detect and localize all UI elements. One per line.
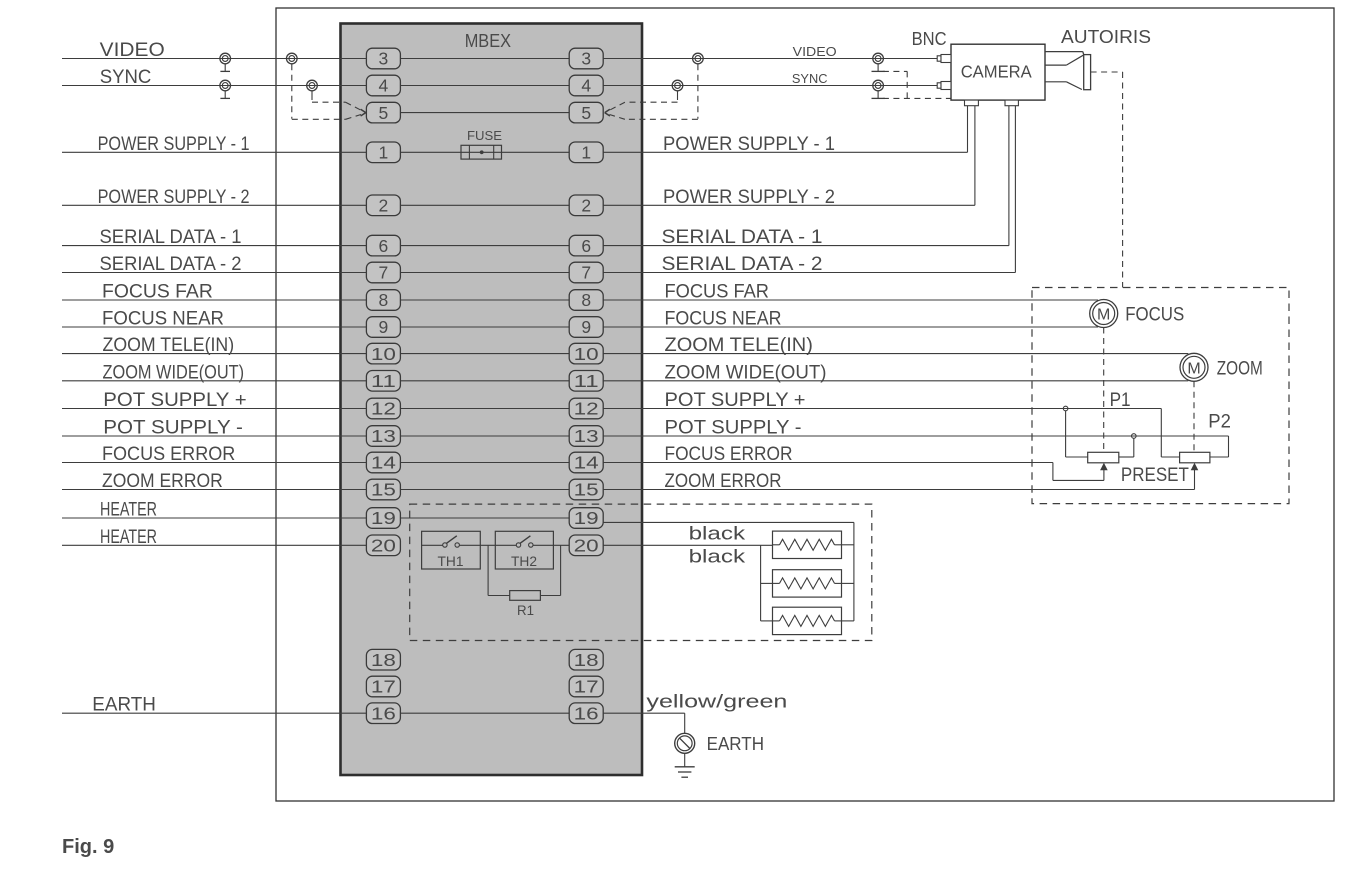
wire POWER SUPPLY -1 (right)	[603, 106, 967, 153]
pin 13 (right column)	[569, 426, 603, 447]
pin 15 (left column)	[366, 479, 400, 500]
wire HR1 to right bus	[842, 544, 854, 546]
wire pin 12 left-col to right-col	[400, 408, 569, 410]
svg-text:7: 7	[379, 263, 389, 283]
wire POT SUPPLY - (right)	[603, 436, 1228, 457]
svg-text:17: 17	[371, 677, 396, 697]
svg-text:HEATER: HEATER	[100, 527, 157, 548]
wire FOCUS FAR (left lead-in)	[62, 299, 366, 301]
lens assembly dashed boundary box	[1032, 288, 1289, 504]
svg-text:POWER SUPPLY - 2: POWER SUPPLY - 2	[663, 187, 835, 208]
wire POWER SUPPLY - 1 (left lead-in)	[62, 151, 366, 153]
shield connector on VIDEO line (left)	[287, 53, 298, 64]
svg-text:6: 6	[379, 236, 389, 256]
svg-text:14: 14	[371, 453, 396, 473]
svg-text:4: 4	[581, 76, 591, 96]
wire HR2 to right bus	[842, 582, 854, 584]
wire VIDEO (left lead-in)	[62, 58, 366, 60]
shield connector on SYNC line (left)	[307, 80, 318, 95]
dashed link focus motor to P1	[1103, 328, 1105, 451]
pin 5 (right column)	[569, 102, 603, 123]
svg-text:SERIAL DATA - 2: SERIAL DATA - 2	[662, 254, 823, 275]
wire ZOOM WIDE(OUT) (left lead-in)	[62, 380, 366, 382]
svg-text:MBEX: MBEX	[465, 31, 511, 51]
svg-text:19: 19	[371, 508, 396, 528]
wire pin 2 left-col to right-col	[400, 204, 569, 206]
svg-text:7: 7	[581, 263, 591, 283]
svg-text:18: 18	[371, 650, 396, 670]
svg-text:5: 5	[581, 103, 591, 123]
wire FOCUS NEAR (left lead-in)	[62, 326, 366, 328]
svg-text:8: 8	[379, 290, 389, 310]
svg-text:FOCUS ERROR: FOCUS ERROR	[665, 444, 793, 465]
svg-text:FUSE: FUSE	[467, 128, 502, 143]
wire pin 9 left-col to right-col	[400, 326, 569, 328]
pin 14 (left column)	[366, 452, 400, 473]
test point connector on VIDEO line (left)	[220, 53, 231, 71]
svg-text:12: 12	[574, 399, 599, 419]
wire HEATER pin 20 (right) to resistor bank	[603, 545, 772, 621]
svg-text:1: 1	[379, 143, 389, 163]
svg-text:HEATER: HEATER	[100, 500, 157, 521]
svg-text:14: 14	[574, 453, 599, 473]
svg-text:ZOOM WIDE(OUT): ZOOM WIDE(OUT)	[665, 362, 827, 383]
wire SYNC (left lead-in)	[62, 85, 366, 87]
shield connector on VIDEO line (right)	[693, 53, 704, 64]
autoiris lens assembly	[1045, 52, 1091, 90]
junction node on POT SUPPLY -	[1132, 434, 1137, 439]
wire FOCUS FAR (right)	[603, 299, 1098, 301]
wire pin 4 left-col to right-col	[400, 85, 569, 87]
camera bottom terminal stub 2	[1005, 100, 1018, 106]
wire ZOOM ERROR (right) to P2 wiper	[603, 469, 1194, 490]
potentiometer P1	[1088, 452, 1119, 463]
svg-text:POT SUPPLY +: POT SUPPLY +	[665, 390, 806, 411]
pin 6 (right column)	[569, 235, 603, 256]
svg-text:6: 6	[581, 236, 591, 256]
pin 17 (right column)	[569, 676, 603, 697]
focus motor M1	[1090, 300, 1118, 328]
wire pin 7 left-col to right-col	[400, 272, 569, 274]
svg-text:AUTOIRIS: AUTOIRIS	[1061, 27, 1151, 47]
svg-text:FOCUS FAR: FOCUS FAR	[102, 282, 213, 303]
wire SYNC (right) to BNC	[603, 85, 937, 87]
pin 9 (left column)	[366, 317, 400, 338]
svg-text:ZOOM: ZOOM	[1217, 358, 1263, 379]
svg-text:4: 4	[379, 76, 389, 96]
pin 11 (left column)	[366, 371, 400, 392]
svg-text:17: 17	[574, 677, 599, 697]
pin 20 (right column)	[569, 535, 603, 556]
svg-text:13: 13	[574, 426, 599, 446]
svg-text:SERIAL DATA - 1: SERIAL DATA - 1	[662, 227, 823, 248]
pin 5 (left column)	[366, 102, 400, 123]
wire POT SUPPLY - (left lead-in)	[62, 435, 366, 437]
camera body U1	[951, 44, 1045, 100]
wire FOCUS ERROR (left lead-in)	[62, 462, 366, 464]
svg-text:POT SUPPLY +: POT SUPPLY +	[103, 390, 246, 411]
camera bottom terminal stub 1	[965, 100, 979, 106]
pin 2 (right column)	[569, 195, 603, 216]
svg-text:ZOOM ERROR: ZOOM ERROR	[102, 471, 223, 492]
svg-text:ZOOM WIDE(OUT): ZOOM WIDE(OUT)	[103, 362, 245, 383]
pin 16 (left column)	[366, 703, 400, 724]
pin 3 (left column)	[366, 48, 400, 69]
pin 3 (right column)	[569, 48, 603, 69]
pin 16 (right column)	[569, 703, 603, 724]
wire pin 14 left-col to right-col	[400, 462, 569, 464]
wire FOCUS ERROR (right) to P1 wiper	[603, 463, 1104, 481]
svg-text:9: 9	[379, 317, 389, 337]
dashed link zoom motor to P2	[1193, 381, 1195, 450]
terminal block MBEX body	[341, 24, 643, 776]
dashed shield wire SYNC to pin 5 (right)	[610, 95, 678, 110]
fuse F1	[461, 145, 502, 159]
junction node on POT SUPPLY +	[1063, 406, 1068, 411]
svg-text:M: M	[1097, 307, 1110, 324]
svg-text:2: 2	[379, 196, 389, 216]
svg-text:8: 8	[581, 290, 591, 310]
zoom motor M2	[1180, 353, 1208, 381]
svg-text:5: 5	[379, 103, 389, 123]
pin 12 (left column)	[366, 398, 400, 419]
svg-text:black: black	[689, 546, 747, 566]
wire HEATER pin 19 (right) to resistor bank	[603, 522, 854, 621]
wire ZOOM TELE(IN) (left lead-in)	[62, 353, 366, 355]
wire pin 1 left-col to right-col (through fuse)	[400, 151, 569, 153]
svg-text:POT SUPPLY -: POT SUPPLY -	[665, 418, 802, 439]
ground symbol	[675, 753, 695, 777]
wire ZOOM TELE(IN) (right)	[603, 353, 1188, 355]
wire EARTH (left lead-in)	[62, 712, 366, 714]
svg-text:FOCUS ERROR: FOCUS ERROR	[102, 444, 235, 465]
svg-text:20: 20	[574, 536, 599, 556]
pin 20 (left column)	[366, 535, 400, 556]
svg-text:9: 9	[581, 317, 591, 337]
svg-text:1: 1	[581, 143, 591, 163]
earth terminal symbol	[675, 733, 695, 753]
svg-text:SERIAL DATA - 1: SERIAL DATA - 1	[100, 227, 242, 248]
arrowhead into pin 5 (right)	[605, 109, 610, 116]
wire SERIAL DATA - 2 (left lead-in)	[62, 272, 366, 274]
svg-text:15: 15	[574, 480, 599, 500]
pin 7 (right column)	[569, 262, 603, 283]
pin 7 (left column)	[366, 262, 400, 283]
wire pin 15 left-col to right-col	[400, 489, 569, 491]
wire pin 3 left-col to right-col	[400, 58, 569, 60]
svg-text:3: 3	[379, 49, 389, 69]
pin 19 (left column)	[366, 508, 400, 529]
pin 15 (right column)	[569, 479, 603, 500]
wire POT SUPPLY + (right)	[603, 409, 1179, 458]
wire HEATER (left lead-in)	[62, 544, 366, 546]
test point connector on VIDEO line (near camera)	[872, 53, 885, 71]
dashed shield wire SYNC to pin 5 (left)	[312, 95, 361, 110]
dashed autoiris mechanical link	[1091, 72, 1123, 288]
test point connector on SYNC line (left)	[220, 80, 231, 98]
svg-text:EARTH: EARTH	[92, 695, 156, 716]
wire junction to P1 right end	[1119, 438, 1134, 457]
svg-text:yellow/green: yellow/green	[646, 691, 787, 711]
wire POT SUPPLY + (left lead-in)	[62, 408, 366, 410]
dashed shield wire VIDEO to pin 5 (right)	[610, 64, 698, 119]
resistor R1	[510, 591, 541, 601]
pin 9 (right column)	[569, 317, 603, 338]
heater resistor HR3	[773, 607, 842, 634]
pin 4 (left column)	[366, 75, 400, 96]
svg-text:R1: R1	[517, 603, 534, 618]
pin 18 (left column)	[366, 649, 400, 670]
svg-text:FOCUS: FOCUS	[1125, 305, 1184, 326]
pin 1 (left column)	[366, 142, 400, 163]
wire EARTH pin 16 (right)	[603, 713, 685, 733]
svg-text:FOCUS FAR: FOCUS FAR	[665, 282, 770, 303]
BNC connector stub (video)	[937, 55, 951, 63]
svg-text:16: 16	[574, 703, 599, 723]
svg-text:ZOOM TELE(IN): ZOOM TELE(IN)	[103, 335, 235, 356]
svg-text:10: 10	[371, 344, 396, 364]
pin 1 (right column)	[569, 142, 603, 163]
wire ZOOM WIDE(OUT) (right)	[603, 380, 1188, 382]
svg-text:15: 15	[371, 480, 396, 500]
border frame	[276, 8, 1334, 801]
wiper arrow P1	[1100, 463, 1108, 471]
svg-text:TH1: TH1	[438, 554, 464, 569]
potentiometer P2	[1180, 452, 1210, 463]
svg-text:18: 18	[574, 650, 599, 670]
pin 13 (left column)	[366, 426, 400, 447]
svg-text:FOCUS NEAR: FOCUS NEAR	[102, 309, 224, 330]
svg-text:POWER SUPPLY - 1: POWER SUPPLY - 1	[663, 134, 835, 155]
wire TH2 parallel branch left	[488, 545, 510, 595]
svg-text:SERIAL DATA - 2: SERIAL DATA - 2	[100, 254, 242, 275]
svg-text:12: 12	[371, 399, 396, 419]
wire SERIAL DATA -2 (right)	[603, 106, 1015, 273]
svg-text:20: 20	[371, 536, 396, 556]
svg-text:10: 10	[574, 344, 599, 364]
svg-text:black: black	[689, 524, 747, 544]
svg-text:SYNC: SYNC	[792, 71, 828, 86]
heater resistor HR1	[773, 531, 842, 558]
arrowhead into pin 5 (left)	[361, 109, 366, 116]
pin 17 (left column)	[366, 676, 400, 697]
wire pin 11 left-col to right-col	[400, 380, 569, 382]
wire HR3 to right bus	[842, 620, 854, 622]
svg-text:EARTH: EARTH	[707, 734, 764, 754]
wire pin 16 left-col to right-col	[400, 712, 569, 714]
pin 8 (right column)	[569, 290, 603, 311]
svg-text:11: 11	[574, 371, 599, 391]
heater resistor HR2	[773, 570, 842, 597]
pin 6 (left column)	[366, 235, 400, 256]
svg-text:POWER SUPPLY - 1: POWER SUPPLY - 1	[98, 134, 250, 155]
pin 2 (left column)	[366, 195, 400, 216]
wire pin 5 left-col to right-col	[400, 112, 569, 114]
svg-text:VIDEO: VIDEO	[793, 44, 837, 59]
wire ZOOM ERROR (left lead-in)	[62, 489, 366, 491]
wire SERIAL DATA -1 (right)	[603, 106, 1009, 246]
wire junction to P1 left end	[1066, 411, 1088, 457]
wire pin 10 left-col to right-col	[400, 353, 569, 355]
shield connector on SYNC line (right)	[672, 80, 683, 95]
svg-text:11: 11	[371, 371, 396, 391]
pin 11 (right column)	[569, 371, 603, 392]
svg-text:P2: P2	[1208, 412, 1231, 433]
svg-text:16: 16	[371, 703, 396, 723]
wire pin 8 left-col to right-col	[400, 299, 569, 301]
svg-text:13: 13	[371, 426, 396, 446]
wire POWER SUPPLY -2 (right)	[603, 106, 975, 206]
svg-text:VIDEO: VIDEO	[100, 40, 165, 61]
wire pin 6 left-col to right-col	[400, 245, 569, 247]
pin 12 (right column)	[569, 398, 603, 419]
dashed shield path near camera	[883, 71, 951, 98]
wire left bus to HR3	[761, 620, 773, 622]
svg-text:19: 19	[574, 508, 599, 528]
wire FOCUS NEAR (right)	[603, 326, 1098, 328]
wire pin 19 left-col to right-col	[400, 517, 569, 519]
svg-text:Fig. 9: Fig. 9	[62, 836, 114, 858]
svg-text:P1: P1	[1110, 390, 1131, 411]
thermal switch TH2	[480, 531, 569, 569]
svg-text:ZOOM ERROR: ZOOM ERROR	[665, 471, 782, 492]
svg-text:ZOOM TELE(IN): ZOOM TELE(IN)	[665, 335, 813, 356]
svg-text:3: 3	[581, 49, 591, 69]
pin 19 (right column)	[569, 508, 603, 529]
wire HEATER (left lead-in)	[62, 517, 366, 519]
svg-text:POT SUPPLY -: POT SUPPLY -	[103, 418, 243, 439]
pin 10 (right column)	[569, 343, 603, 364]
pin 4 (right column)	[569, 75, 603, 96]
svg-text:M: M	[1187, 360, 1200, 377]
svg-text:SYNC: SYNC	[100, 67, 152, 88]
svg-text:PRESET: PRESET	[1121, 465, 1189, 486]
wire POWER SUPPLY - 2 (left lead-in)	[62, 204, 366, 206]
wiper arrow P2	[1191, 463, 1199, 471]
svg-text:CAMERA: CAMERA	[961, 61, 1032, 81]
BNC connector stub (sync)	[937, 82, 951, 90]
pin 14 (right column)	[569, 452, 603, 473]
svg-text:2: 2	[581, 196, 591, 216]
test point connector on SYNC line (near camera)	[872, 80, 885, 98]
wire TH2 parallel branch right	[540, 545, 560, 595]
wire VIDEO (right) to BNC	[603, 58, 937, 60]
pin 10 (left column)	[366, 343, 400, 364]
svg-text:BNC: BNC	[912, 29, 947, 49]
heater circuit dashed boundary box	[410, 504, 872, 640]
wire pin 13 left-col to right-col	[400, 435, 569, 437]
pin 18 (right column)	[569, 649, 603, 670]
wire SERIAL DATA - 1 (left lead-in)	[62, 245, 366, 247]
wire left bus to HR2	[761, 582, 773, 584]
svg-text:TH2: TH2	[511, 554, 537, 569]
thermal switch TH1	[422, 531, 481, 569]
dashed shield wire VIDEO to pin 5 (left)	[292, 64, 361, 119]
svg-text:POWER SUPPLY - 2: POWER SUPPLY - 2	[98, 187, 250, 208]
pin 8 (left column)	[366, 290, 400, 311]
svg-text:FOCUS NEAR: FOCUS NEAR	[665, 309, 782, 330]
